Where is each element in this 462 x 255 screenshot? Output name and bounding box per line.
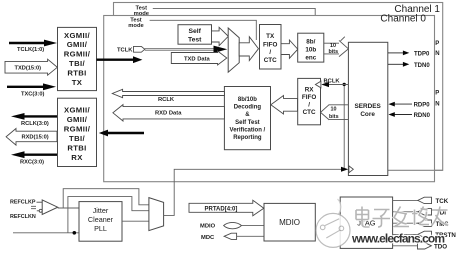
wire: MDC line [237,235,264,237]
wire: MDIO line [242,225,265,227]
svg-text:bits: bits [329,49,339,55]
svg-text:TDP0: TDP0 [414,52,430,58]
svg-text:enc: enc [305,55,316,62]
block: 8b/10b enc [298,33,324,62]
svg-text:N: N [435,51,439,57]
svg-text:Verification /: Verification / [230,127,266,133]
svg-text:TX: TX [266,33,275,40]
wire: secondary ref to mux [68,197,149,233]
channel 0 title [380,14,426,25]
svg-text:Core: Core [360,111,375,118]
svg-text:TXC(3:0): TXC(3:0) [21,91,44,97]
wire: TX FIFO to encoder bus arrow [281,40,298,58]
wire: PRTAD[4:0] input bus arrow [189,200,264,216]
svg-text:RCLK: RCLK [158,97,175,103]
svg-text:RGMII/: RGMII/ [64,125,91,134]
svg-text:SERDES: SERDES [354,103,381,110]
wire: RDP0 input [388,102,430,109]
wire: BCLK vertical line with junction [343,83,346,170]
wire: RXC(3:0) output arrow [11,151,57,165]
svg-text:RTBI: RTBI [67,144,86,153]
svg-text:N: N [435,102,439,108]
svg-text:TXD(15:0): TXD(15:0) [15,66,42,72]
svg-text:GMII/: GMII/ [67,115,88,124]
svg-text:MDIO: MDIO [279,218,300,227]
svg-text:Self Test: Self Test [235,120,260,126]
wire: self test output bus arrow [212,27,229,45]
watermark url text [351,232,445,246]
node: MDIO bidirectional tag [200,222,242,229]
test mode label (channel 0) [128,17,144,29]
wire: clock mux output to SERDES [164,167,349,216]
svg-text:TXD Data: TXD Data [184,56,211,62]
node: REFCLKN label [10,214,36,220]
wire: BCLK into RX FIFO [315,78,348,87]
node: TCLK internal tag [117,46,145,53]
svg-text:FIFO: FIFO [302,94,316,101]
block: TX FIFO / CTC [260,25,282,70]
svg-text:XGMII/: XGMII/ [64,31,91,40]
svg-text:Self: Self [188,28,201,35]
wire: mux output to TX FIFO [239,37,258,61]
wire: TXD Data labelled bus arrow [171,51,227,65]
wire: PLL output to mux [122,220,149,222]
svg-text:RXD(15:0): RXD(15:0) [22,134,49,140]
node: MDC input tag [201,233,237,241]
svg-text:MDIO: MDIO [200,223,216,229]
svg-text:MDC: MDC [201,235,215,241]
wire: TX data black arrow from TX block [97,56,143,63]
watermark chinese text (approximated glyphs) [356,207,448,228]
block: Jitter Cleaner PLL [79,202,122,242]
svg-text:P: P [435,91,439,97]
wire: refclk bypass to mux [63,189,149,208]
svg-text:TDN0: TDN0 [414,63,430,69]
svg-text:RXC(3:0): RXC(3:0) [20,160,44,166]
node: channel 1 port label fragments TDP1/TDN1/RDP1/RDN1 [435,41,439,107]
svg-text:RTBI: RTBI [67,68,86,77]
wire: TCK [393,197,449,205]
wire: RDN0 input [388,112,430,119]
svg-text:Jitter: Jitter [93,206,109,215]
svg-text:CTC: CTC [264,57,277,64]
svg-text:RX: RX [71,153,83,162]
wire: TDN0 output [388,62,430,69]
svg-text:REFCLKN: REFCLKN [10,214,36,220]
svg-text:REFCLKP: REFCLKP [10,199,36,205]
channel 1 box [114,3,443,171]
svg-text:8b/10b: 8b/10b [238,97,257,103]
mux M1: TX path mux [228,28,239,72]
buffer B1: REFCLK input buffer [37,200,58,215]
wire: channel 1 test mode [153,8,315,15]
svg-text:bits: bits [329,114,339,120]
node: refclk polarity dashes [31,206,36,208]
wire: RCLK output arrow [112,89,224,103]
svg-text:TCLK: TCLK [117,47,133,53]
wire: RCLK(3:0) output arrow [11,113,57,127]
wire: channel 1 bottom edge visible segment [388,169,443,171]
block: JTAG [340,197,392,248]
wire: TXD(15:0) input block arrow [5,59,57,75]
block: SERDES Core [348,42,387,175]
svg-text:PLL: PLL [94,224,107,233]
block: 8b/10b Decoding & Self Test Verification/Reporting [224,87,270,150]
wire: TRSTN [393,231,457,239]
svg-text:mode: mode [128,23,144,29]
node: SERDES clock input triangle [349,166,353,173]
node: REFCLKP label [10,199,36,205]
block U1: XGMII/GMII/RGMII/TBI/RTBI TX [58,27,97,90]
block U2: XGMII/GMII/RGMII/TBI/RTBI RX [58,98,97,166]
svg-text:&: & [245,112,250,118]
wire: TDI [393,209,447,217]
wire: RXD(15:0) output block arrow [6,129,57,146]
svg-text:Channel 0: Channel 0 [380,14,426,25]
svg-text:Test: Test [188,36,202,43]
svg-text:GMII/: GMII/ [67,40,88,49]
watermark logo circle [316,196,350,247]
svg-text:Cleaner: Cleaner [88,215,114,224]
svg-text:TX: TX [72,78,83,87]
wire: RXD Data output arrow [113,105,224,121]
svg-text:/: / [308,102,310,109]
wire: TCLK(1:0) input arrow [9,40,57,54]
wire: encoder to SERDES 10-bit arrow [324,37,349,57]
svg-text:CTC: CTC [303,109,316,116]
svg-text:FIFO: FIFO [263,42,277,49]
wire: channel 0 test mode [150,20,257,40]
svg-text:RCLK(3:0): RCLK(3:0) [21,121,49,127]
wire: TDP0 output [388,51,430,58]
svg-text:/: / [269,49,271,56]
svg-text:RX: RX [305,87,315,94]
svg-text:TBI/: TBI/ [69,59,85,68]
channel 0 box [104,16,435,182]
svg-text:XGMII/: XGMII/ [64,106,91,115]
svg-text:P: P [435,41,439,47]
svg-text:10b: 10b [305,47,316,54]
svg-text:TBI/: TBI/ [69,134,85,143]
wire: TDO output [393,243,448,251]
wire: bottom reference line with junction [13,231,79,235]
test mode label (channel 1) [134,6,150,18]
wire: RX FIFO to decoder block arrow [271,96,298,115]
svg-text:Decoding: Decoding [234,105,262,111]
wire: TMS [393,220,449,228]
wire: TXC(3:0) input arrow [7,83,56,97]
block: Self Test [178,25,212,45]
svg-text:RGMII/: RGMII/ [64,50,91,59]
wire: RX data black arrow into RX block [99,130,144,137]
mux M2: clock select mux [149,198,164,231]
svg-text:www.elecfans.com: www.elecfans.com [351,232,445,246]
svg-text:RXD Data: RXD Data [155,111,182,117]
svg-text:Reporting: Reporting [233,135,262,141]
block: RX FIFO / CTC [298,78,321,124]
svg-text:8b/: 8b/ [306,38,315,45]
svg-text:10: 10 [331,106,337,112]
svg-text:TCK: TCK [436,198,449,205]
channel 1 title [394,4,440,15]
wire: SERDES to RX FIFO 10-bit bus arrow [321,105,349,120]
wire: buffer output to PLL [58,207,79,209]
block: MDIO [264,203,315,241]
wire: TCLK line to mux with solid head [145,46,228,53]
svg-text:PRTAD[4:0]: PRTAD[4:0] [205,206,238,212]
svg-text:TCLK(1:0): TCLK(1:0) [17,47,44,53]
svg-text:RDN0: RDN0 [414,113,431,119]
svg-text:BCLK: BCLK [324,78,341,84]
svg-text:RDP0: RDP0 [414,103,431,109]
